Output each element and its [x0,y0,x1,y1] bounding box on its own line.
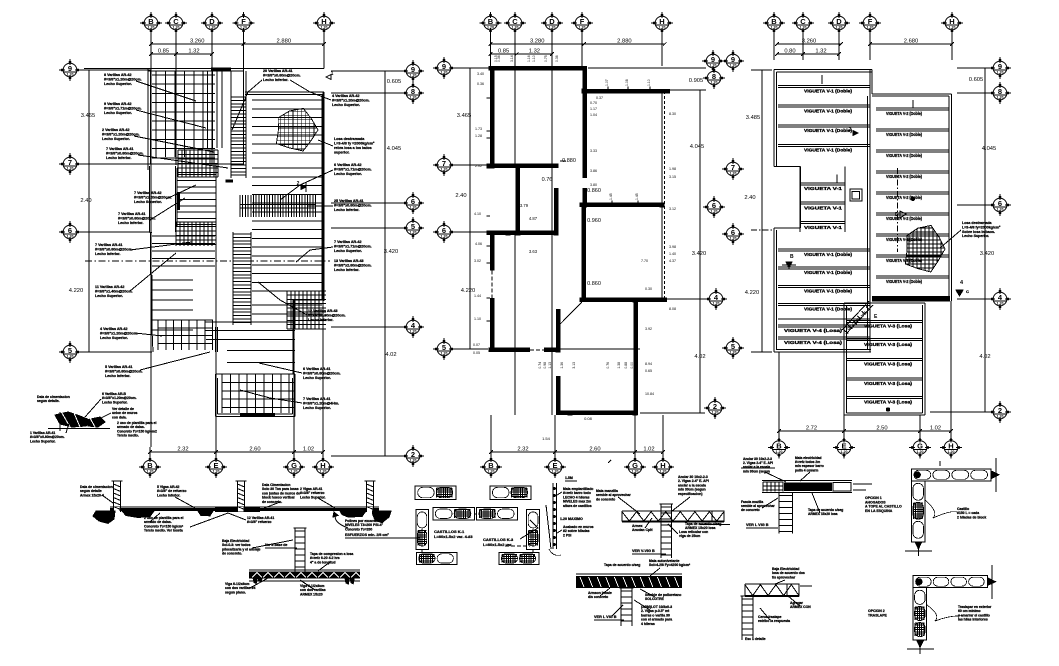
svg-text:0.85: 0.85 [158,49,169,55]
svg-text:Lecho Superior.: Lecho Superior. [962,234,989,238]
svg-text:con dala.: con dala. [112,415,127,419]
svg-text:VIGUETA V-3 (Losa): VIGUETA V-3 (Losa) [864,342,913,347]
plan 3: bottom bubbles [768,437,790,459]
detail D6: slab corner detail top right [762,480,852,482]
svg-text:Sol=4.2/8 Fy=4200 kg/cm²: Sol=4.2/8 Fy=4200 kg/cm² [649,563,691,567]
svg-text:Esc 1 detalle: Esc 1 detalle [745,637,766,641]
svg-text:2.50: 2.50 [876,426,887,432]
svg-text:VIGUETA V-1 (Doble): VIGUETA V-1 (Doble) [804,289,852,294]
svg-text:2.880: 2.880 [277,39,292,45]
plan 1: column grid bubbles top row [140,12,162,34]
svg-text:#=3/8"x0.80m@20cm.: #=3/8"x0.80m@20cm. [105,370,143,374]
plan 2: small column blocks [515,230,520,235]
svg-text:7.70: 7.70 [641,259,648,263]
svg-text:1.40: 1.40 [669,252,676,256]
svg-text:4.10: 4.10 [474,212,481,216]
svg-text:VIGUETA V-1: VIGUETA V-1 [804,205,843,210]
svg-text:0.605: 0.605 [387,79,402,85]
svg-text:3.420: 3.420 [692,251,707,257]
svg-text:Lecho Superior.: Lecho Superior. [102,137,130,141]
svg-text:4.220: 4.220 [69,288,84,294]
svg-text:Lecho Superior.: Lecho Superior. [334,249,362,253]
svg-text:3.02: 3.02 [474,259,481,263]
svg-text:1.20: 1.20 [997,96,1004,100]
svg-text:Tercio medio. Ver loseta: Tercio medio. Ver loseta [144,529,183,533]
svg-text:1.20: 1.20 [552,470,559,474]
svg-text:3.420: 3.420 [980,251,995,257]
svg-text:las hilas interiores: las hilas interiores [958,618,988,622]
svg-text:0.85: 0.85 [498,49,509,55]
plan 1: crosshatch mid-right patch [286,291,288,329]
plan 2: wall bottom y413 [556,411,638,416]
svg-text:2.32: 2.32 [177,447,188,453]
svg-text:7 Varillas AR-41: 7 Varillas AR-41 [118,212,146,216]
svg-text:0.88: 0.88 [624,362,628,369]
svg-text:1.5M: 1.5M [565,476,573,480]
plan 1: crosshatch band upper [177,150,179,177]
svg-text:#=3/8"x0.80m@20cm.: #=3/8"x0.80m@20cm. [334,204,372,208]
svg-text:1.20: 1.20 [711,81,718,85]
svg-text:VIGUETA V-1 (Doble): VIGUETA V-1 (Doble) [804,128,852,133]
plan 3: small box detail near mid [850,189,862,201]
svg-text:1.20: 1.20 [441,235,448,239]
svg-text:1.20: 1.20 [410,96,417,100]
svg-text:Armex 15x20-4: Armex 15x20-4 [80,493,104,497]
svg-text:superior.: superior. [334,151,350,155]
plan 2: wall horizontal y205 right [579,202,663,207]
svg-text:1.20: 1.20 [441,71,448,75]
svg-text:VIGUETA V-1 (Doble): VIGUETA V-1 (Doble) [804,108,852,113]
svg-text:2.60: 2.60 [249,447,260,453]
svg-text:#=3/8"x1.71m@20cm.: #=3/8"x1.71m@20cm. [334,245,372,249]
svg-text:0.08: 0.08 [584,416,593,421]
plan 1: horizontal ladder 25-varillas [239,195,241,217]
svg-text:VIGUETA V-1 (Doble): VIGUETA V-1 (Doble) [804,252,852,257]
svg-text:1.38: 1.38 [617,362,621,369]
svg-text:1.20: 1.20 [949,26,956,30]
svg-text:VIGUETA V-2 (Doble): VIGUETA V-2 (Doble) [886,111,922,116]
svg-text:especificacion): especificacion) [678,492,703,496]
svg-text:D: D [895,212,899,218]
svg-text:4 hileras: 4 hileras [641,622,655,626]
svg-text:#=3/8"x0.80m@20cm.: #=3/8"x0.80m@20cm. [303,372,341,376]
svg-text:#=3/8"x1.20m@20cm.: #=3/8"x1.20m@20cm. [100,332,138,336]
svg-text:VIGUETA V-3 (Losa): VIGUETA V-3 (Losa) [864,362,913,367]
plan 1: right column bubbles [402,60,424,82]
svg-text:1.07: 1.07 [605,79,609,86]
svg-text:13 Varillas AR-43: 13 Varillas AR-43 [334,259,364,263]
svg-text:7 Varillas AR-42: 7 Varillas AR-42 [334,240,362,244]
svg-text:1.20: 1.20 [410,206,417,210]
plan 2: wall x635 right lower [633,300,638,415]
svg-text:1.20: 1.20 [632,470,639,474]
plan 1: top-right room horizontal joists [252,99,322,101]
svg-text:8.94: 8.94 [645,362,652,366]
svg-text:Lecho Superior.: Lecho Superior. [104,111,132,115]
plan 3: section flags [853,131,858,136]
svg-text:C: C [966,289,969,294]
svg-text:6 Varillas AR-42: 6 Varillas AR-42 [334,163,362,167]
plan 2: right dim chain [699,90,701,413]
svg-text:Losa destramada: Losa destramada [962,221,993,225]
plan 3: thick bottom bar of right column [872,296,950,301]
svg-text:0.30: 0.30 [645,287,652,291]
svg-text:#=3/8"x1.20m@20cm.: #=3/8"x1.20m@20cm. [332,99,370,103]
svg-text:7 Varillas AR-41: 7 Varillas AR-41 [106,147,134,151]
svg-text:polin 4 cm/arm: polin 4 cm/arm [795,468,818,472]
plan 1: section flag top right [326,75,331,80]
svg-text:segun plano.: segun plano. [225,590,246,594]
svg-text:Lecho Superior.: Lecho Superior. [303,376,331,380]
svg-text:1.20: 1.20 [712,411,719,415]
svg-text:VIGUETA V-1 (Doble): VIGUETA V-1 (Doble) [804,148,852,153]
plan 2: left bubbles [433,57,455,79]
svg-text:3.92: 3.92 [645,327,652,331]
svg-text:EN LA ESQUINA: EN LA ESQUINA [865,509,893,513]
svg-text:1.20: 1.20 [730,172,737,176]
svg-text:1.20: 1.20 [549,26,556,30]
detail D2: slab with column center-bottom [294,528,296,577]
svg-text:4.045: 4.045 [387,146,402,152]
svg-text:1.20: 1.20 [67,73,74,77]
svg-text:Lecho Superior.: Lecho Superior. [102,400,128,404]
svg-text:2.02: 2.02 [475,164,482,168]
svg-text:Losa destramada: Losa destramada [334,137,365,141]
plan 2: diagonal door line [558,302,582,326]
svg-text:VIGUETA V-1: VIGUETA V-1 [804,225,843,230]
svg-text:1.20: 1.20 [867,26,874,30]
svg-text:1.02: 1.02 [643,447,654,453]
svg-text:1.10: 1.10 [532,55,536,62]
plan 1: section flag mid [301,185,306,190]
svg-text:1.20: 1.20 [660,470,667,474]
svg-text:1.20: 1.20 [997,302,1004,306]
svg-text:Lecho Inferior.: Lecho Inferior. [334,208,359,212]
plan 1: stair detail bottom-left [48,412,110,433]
svg-text:1.20: 1.20 [147,470,154,474]
svg-text:1: 1 [331,71,334,77]
svg-text:Lecho Inferior.: Lecho Inferior. [263,78,288,82]
plan 1: dash-dot centerline [85,260,330,262]
plan 3: bottom-right block outline [843,303,845,415]
svg-text:1.20: 1.20 [441,352,448,356]
plan 3: mid narrow strips [799,166,801,232]
detail D3: wall edge section [552,483,554,549]
svg-text:3.98: 3.98 [669,245,676,249]
svg-text:1.20: 1.20 [659,26,666,30]
svg-text:VIGUETA V-2 (Doble): VIGUETA V-2 (Doble) [886,195,922,200]
svg-text:3.13: 3.13 [572,362,576,369]
svg-text:1.08: 1.08 [625,79,629,86]
svg-text:Anudan CpN: Anudan CpN [632,528,653,532]
svg-text:5 Varillas AR-41: 5 Varillas AR-41 [105,365,133,369]
plan 2: wall vertical x556 mid [554,188,559,235]
svg-text:d/s concreto: d/s concreto [588,595,608,599]
plan 2: wall right top y91 [585,89,671,94]
svg-text:0.70: 0.70 [590,101,597,105]
svg-text:4.06: 4.06 [475,242,482,246]
svg-text:0.74: 0.74 [538,362,542,369]
svg-text:1.02: 1.02 [930,426,941,432]
svg-text:1.20: 1.20 [410,459,417,463]
svg-text:1.20: 1.20 [291,470,298,474]
svg-text:1.20: 1.20 [213,470,220,474]
svg-text:1.20: 1.20 [836,26,843,30]
svg-text:0.05: 0.05 [473,351,480,355]
svg-text:0.00: 0.00 [630,362,634,369]
svg-text:#=3/8"x1.20m@20cm.: #=3/8"x1.20m@20cm. [102,133,140,137]
svg-text:2.40: 2.40 [455,193,466,199]
svg-text:Lecho Superior.: Lecho Superior. [30,439,56,443]
detail D1: columns with hatch [113,481,115,512]
svg-text:estribo la respuesta: estribo la respuesta [758,619,790,623]
svg-text:1.20: 1.20 [67,167,74,171]
svg-text:VER L VIG B: VER L VIG B [746,523,769,527]
svg-text:1.20: 1.20 [67,235,74,239]
svg-text:Sobre losa in baos.: Sobre losa in baos. [962,230,995,234]
svg-text:1.20: 1.20 [730,237,737,241]
plan 1: center outline steps [216,163,244,165]
svg-text:Lecho Inferior.: Lecho Inferior. [118,221,143,225]
plan 2: wall left lower with gap [490,235,495,271]
plan 2: wall mid horizontal y165 [487,164,559,169]
svg-text:1.20: 1.20 [410,74,417,78]
plan 1: vertical ladder center [230,71,232,95]
svg-text:1.20: 1.20 [441,168,448,172]
svg-text:Lecho Inferior.: Lecho Inferior. [106,156,131,160]
svg-text:1.20: 1.20 [710,64,717,68]
svg-text:1.20: 1.20 [997,415,1004,419]
plan 2: left wall tick marks [487,97,491,99]
plan 2: bottom dimension chain [491,451,555,453]
plan 2: top dimension chain [491,43,585,45]
svg-text:4.02: 4.02 [385,352,396,358]
svg-text:7 Varillas AR-42: 7 Varillas AR-42 [134,191,162,195]
svg-text:VIGUETA V-2 (Doble): VIGUETA V-2 (Doble) [886,279,922,284]
svg-text:1.20: 1.20 [240,26,247,30]
svg-text:1.98: 1.98 [669,167,676,171]
svg-text:#=3/8"x0.80m@20cm.: #=3/8"x0.80m@20cm. [95,248,133,252]
svg-text:0.960: 0.960 [587,218,601,224]
svg-text:3.15: 3.15 [669,175,676,179]
svg-text:1.20: 1.20 [410,330,417,334]
plan 1: left column bubbles [59,59,81,81]
detail L-corner option 1 [911,469,991,481]
svg-text:1.02: 1.02 [303,447,314,453]
svg-text:Tapa de acuerdo c/seg: Tapa de acuerdo c/seg [604,563,640,567]
plan 3: joist strips bottom-right block [846,319,923,321]
stray mark [608,460,611,463]
svg-text:VER L VIG B: VER L VIG B [594,615,617,619]
plan 2: right bubbles [702,50,724,72]
svg-text:4.02: 4.02 [694,354,705,360]
svg-text:0.905: 0.905 [689,78,704,84]
svg-text:Lecho Inferior.: Lecho Inferior. [157,493,180,497]
plan 2: wall vertical x517 mid [516,166,521,235]
svg-text:0.605: 0.605 [969,77,984,83]
svg-text:0.36: 0.36 [477,82,484,86]
plan 3: outline [774,69,872,71]
svg-text:4.02: 4.02 [979,354,990,360]
svg-text:1.16: 1.16 [527,55,531,62]
svg-text:1.20: 1.20 [776,450,783,454]
svg-text:VIGUETA V-2 (Doble): VIGUETA V-2 (Doble) [886,153,922,158]
plan 1: bottom bubbles [139,456,161,478]
plan 2: wall x558 lower stub [556,376,561,415]
plan 1: stair ladder left-center [176,168,178,226]
plan 2: wall horizontal y233 [487,231,559,236]
svg-text:3.86: 3.86 [590,169,597,173]
plan 3: left notch outline [774,165,801,167]
svg-text:1.10: 1.10 [647,79,651,86]
svg-text:segun detalle.: segun detalle. [37,399,60,403]
svg-text:Ver a base de: Ver a base de [265,543,287,547]
svg-text:VIGUETA V-1 (Doble): VIGUETA V-1 (Doble) [804,89,852,94]
plan 1: vertical ladder lower [233,233,251,235]
svg-text:1.10: 1.10 [474,317,481,321]
svg-text:1.44: 1.44 [474,294,481,298]
detail D1: long foundation section [110,506,379,508]
svg-text:2.40: 2.40 [80,198,91,204]
svg-text:1.20: 1.20 [997,208,1004,212]
svg-text:altura de castillos: altura de castillos [563,504,592,508]
svg-text:0.75: 0.75 [544,55,548,62]
svg-text:3.33: 3.33 [590,149,597,153]
svg-text:ARMEX 15x20: ARMEX 15x20 [300,592,323,596]
plan 3: grid extension lines [773,30,775,61]
svg-text:#=3/8"x1.71m@20cm.: #=3/8"x1.71m@20cm. [334,168,372,172]
svg-text:Lecho Superior.: Lecho Superior. [134,200,162,204]
svg-text:1.20 MAXIMO: 1.20 MAXIMO [560,517,583,521]
svg-text:2: 2 [297,181,300,187]
svg-text:2.60: 2.60 [589,447,600,453]
plan 2: wall bottom y350 [489,348,531,353]
svg-text:de concreto: de concreto [596,497,615,501]
detail castillos: connection lines [421,550,423,553]
plan 2: wall x558 stub upper [556,309,561,352]
svg-text:VIGUETA V-1 (Doble): VIGUETA V-1 (Doble) [804,270,852,275]
svg-text:3.14: 3.14 [510,55,514,62]
svg-text:3.79: 3.79 [520,203,529,208]
plan 3: inner vertical boundary x870 [869,70,871,353]
svg-text:0.860: 0.860 [587,281,601,287]
svg-text:1.17: 1.17 [590,107,597,111]
svg-text:de concreto: de concreto [741,508,760,512]
svg-text:0.03: 0.03 [596,90,603,94]
detail D7: truss slab bottom-left of right group [745,583,799,585]
svg-text:4.87: 4.87 [529,216,538,221]
svg-text:3.80: 3.80 [590,183,597,187]
svg-text:3.40: 3.40 [477,72,484,76]
svg-text:1.20: 1.20 [948,450,955,454]
plan 1: bottom outline [216,373,296,375]
svg-text:VIGUETA V-3 (Losa): VIGUETA V-3 (Losa) [864,324,913,329]
svg-text:1.20: 1.20 [997,71,1004,75]
plan 2: grid extension lines horizontal [450,67,490,69]
svg-text:ARMEX CON: ARMEX CON [790,605,811,609]
plan 3: right dim chain [984,68,986,412]
plan 3: left dim chain [761,70,763,352]
svg-text:0.76: 0.76 [606,362,610,369]
svg-text:Concreto f'c=200: Concreto f'c=200 [345,527,372,531]
svg-text:4 Varillas AR-42: 4 Varillas AR-42 [332,94,360,98]
svg-text:0.36: 0.36 [497,55,501,62]
svg-text:Lecho Inferior.: Lecho Inferior. [308,318,333,322]
svg-text:#=3/8"x1.20m@20cm.: #=3/8"x1.20m@20cm. [104,78,142,82]
svg-text:1.04: 1.04 [590,113,597,117]
svg-text:3.465: 3.465 [457,113,472,119]
plan 3: right bubbles [989,57,1011,79]
svg-text:1.20: 1.20 [148,26,155,30]
svg-text:VIGUETA V-3 (Losa): VIGUETA V-3 (Losa) [864,400,913,405]
detail D4: truss slab with column upper middle [622,510,724,512]
svg-text:VIGUETA V-2 (Doble): VIGUETA V-2 (Doble) [886,174,922,179]
svg-text:1.20: 1.20 [487,26,494,30]
svg-text:1.20: 1.20 [711,210,718,214]
svg-text:1.32: 1.32 [188,49,199,55]
svg-text:viga de 25cm: viga de 25cm [679,534,700,538]
plan 3: joist strips right block [876,107,949,109]
svg-text:3.63: 3.63 [529,249,538,254]
plan 2: wall vertical x583 lower [581,207,586,299]
svg-text:VER V-VIG B: VER V-VIG B [632,549,655,553]
svg-text:1.20: 1.20 [771,26,778,30]
svg-text:2 hiladas de block: 2 hiladas de block [957,515,986,519]
svg-text:0.98: 0.98 [543,362,547,369]
svg-text:1.20: 1.20 [917,450,924,454]
svg-text:3.12: 3.12 [669,207,676,211]
svg-text:Lecho Inferior.: Lecho Inferior. [105,374,130,378]
plan 2: wall vertical x584 upper [583,66,588,178]
plan 2: left dim chain [469,68,471,349]
svg-text:10.84: 10.84 [645,392,654,396]
detail castillos K-1 K-3 blocks [415,486,456,500]
svg-text:1.13: 1.13 [548,362,552,369]
plan 1: bottom dimension chain [150,451,216,453]
svg-text:4.220: 4.220 [745,290,760,296]
plan 1: vertical grid lines [150,30,152,39]
plan 1: crosshatch band mid [175,222,177,246]
svg-text:0.80: 0.80 [784,49,795,55]
svg-text:12 Varillas AR-43: 12 Varillas AR-43 [308,309,338,313]
svg-text:2.680: 2.680 [904,39,919,45]
svg-text:1.45: 1.45 [609,193,613,200]
plan 1: left room mid joists [152,235,215,237]
svg-text:1.28: 1.28 [475,134,482,138]
svg-text:#=3/8"x1.71m@20cm.: #=3/8"x1.71m@20cm. [104,107,142,111]
detail L-corner 1 bottom arrow [915,542,922,549]
plan 3: dash-dot centerline right block [897,168,899,252]
svg-text:TRASLAPE: TRASLAPE [868,613,888,617]
svg-text:B: B [790,254,794,260]
svg-text:1.20: 1.20 [209,26,216,30]
svg-text:0.860: 0.860 [587,188,601,194]
svg-text:Lecho Inferior.: Lecho Inferior. [95,252,120,256]
svg-text:1.36: 1.36 [560,362,564,369]
detail D1: ground hatch blobs [93,511,115,523]
svg-text:4" a de longitud: 4" a de longitud [310,560,336,564]
svg-text:2.40: 2.40 [744,195,755,201]
plan 1: top dimension chain [151,43,244,45]
svg-text:1.32: 1.32 [529,49,540,55]
svg-text:1.20: 1.20 [579,26,586,30]
svg-text:2: 2 [849,127,852,133]
svg-text:1.20: 1.20 [841,450,848,454]
svg-text:4 Varillas AR-42: 4 Varillas AR-42 [100,327,128,331]
plan 3: top bubbles [763,12,785,34]
svg-text:25 Varillas AR-41: 25 Varillas AR-41 [334,199,364,203]
svg-text:0.36: 0.36 [555,55,559,62]
